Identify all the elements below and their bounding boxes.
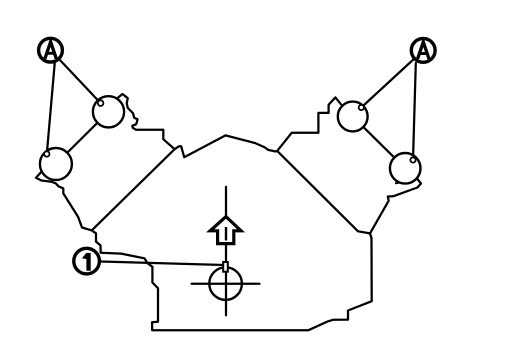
bolt upper-right: [359, 105, 364, 110]
camshaft sensor upper-right: [338, 102, 368, 132]
bolt lower-right: [410, 157, 415, 162]
wire: leader line from A left to upper-left sensor: [51, 50, 101, 103]
engine top outline with V banks: [117, 94, 341, 157]
crank position sensor circle with crosshair: [209, 267, 242, 300]
callout 1: [74, 248, 100, 274]
callout A right: [411, 39, 435, 63]
wire: link between right sensors: [353, 117, 406, 169]
wire: leader line from A right to upper-right sensor: [361, 50, 423, 107]
wire: leader line from callout 1 to crank sensor: [87, 261, 224, 265]
camshaft sensor lower-right: [390, 153, 421, 184]
arrow centerline dash: [225, 227, 227, 241]
wire: short edge under lower-right sensor: [396, 179, 414, 183]
direction arrow (hollow up arrow): [210, 217, 241, 244]
crank sensor mounting tab: [223, 262, 228, 272]
callout A left: [39, 38, 63, 62]
camshaft sensor upper-left: [93, 96, 124, 127]
wire: leader line from A left to lower-left sensor: [47, 64, 55, 155]
engine lower outline: [36, 171, 421, 331]
bolt upper-left: [98, 100, 104, 106]
wire: vertical centerline of crank sensor: [225, 187, 227, 316]
wire: leader line from A right to lower-right sensor: [413, 63, 416, 160]
wire: right bank inner edge: [277, 151, 370, 234]
bolt lower-left: [44, 151, 49, 156]
wire: link between left sensors: [56, 112, 109, 164]
camshaft sensor lower-left: [40, 148, 72, 180]
wire: left bank inner edge: [92, 149, 175, 230]
wire: horizontal crosshair of crank sensor: [192, 283, 260, 285]
